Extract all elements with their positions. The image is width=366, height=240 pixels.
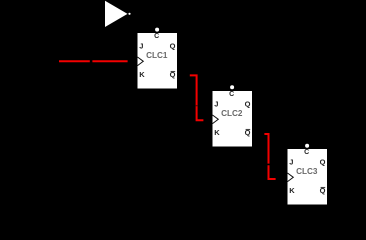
wire W3 segment b (down to CLC3 clock) <box>269 165 276 179</box>
CLC1 body <box>138 33 178 89</box>
svg-text:C: C <box>154 33 159 40</box>
wire W3 segment a (CLC2 Q-bar, upper L) <box>264 134 268 164</box>
flip-flop CLC3 <box>288 144 328 205</box>
svg-text:J: J <box>214 100 218 109</box>
CLC1 pin C bubble <box>155 28 159 32</box>
inverter U1 output bubble <box>128 13 130 15</box>
svg-text:C: C <box>229 91 234 98</box>
CLC3 pin C bubble <box>305 144 309 148</box>
CLC3 clock chevron <box>288 173 294 182</box>
CLC3 body <box>288 149 328 205</box>
CLC1 pin label Q-bar <box>170 70 176 79</box>
CLC2 pin C bubble <box>230 85 234 89</box>
svg-text:J: J <box>139 42 143 51</box>
inverter U1 <box>105 1 131 27</box>
svg-text:CLC3: CLC3 <box>296 167 318 176</box>
flip-flop CLC1 <box>138 28 178 89</box>
svg-text:Q: Q <box>320 158 326 167</box>
svg-text:K: K <box>139 70 145 79</box>
CLC3 pin label Q-bar <box>320 186 326 195</box>
CLC2 pin label Q-bar <box>245 128 251 137</box>
CLC1 clock chevron <box>138 57 144 66</box>
svg-text:CLC2: CLC2 <box>221 109 243 118</box>
CLC2 clock chevron <box>213 115 219 124</box>
svg-text:Q: Q <box>245 100 251 109</box>
svg-text:CLC1: CLC1 <box>146 51 168 60</box>
CLC2 body <box>213 91 253 147</box>
flip-flop CLC2 <box>213 85 253 146</box>
svg-text:Q: Q <box>170 42 176 51</box>
svg-text:J: J <box>289 158 293 167</box>
wire W2 junction notch <box>196 105 198 106</box>
svg-text:K: K <box>214 128 220 137</box>
wire W1 segment a (into CLC1 clock) <box>59 60 90 62</box>
wire W2 (CLC1 Q-bar to CLC2 clock) <box>190 75 204 120</box>
svg-text:K: K <box>289 186 295 195</box>
wire W1 segment b <box>92 60 127 62</box>
svg-text:C: C <box>304 149 309 156</box>
